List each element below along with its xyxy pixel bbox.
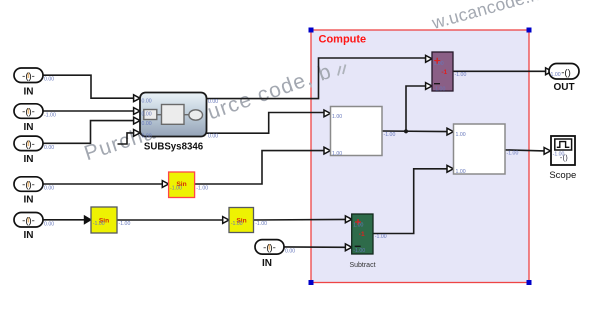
wire IN5 to Sin2 xyxy=(43,219,85,221)
svg-text:1.00: 1.00 xyxy=(353,222,363,228)
wire IN6 to Subtract minus input xyxy=(284,246,346,248)
svg-text:Compute: Compute xyxy=(319,34,367,46)
svg-text:-1.00: -1.00 xyxy=(353,248,365,254)
inport IN5 oval xyxy=(14,213,43,228)
gain/filter block Block1 (white) xyxy=(331,107,383,156)
svg-text:-1.00: -1.00 xyxy=(231,221,243,227)
subtract block (dark green sum) xyxy=(352,214,373,254)
selection handle top-right xyxy=(527,28,532,33)
svg-text:0.00: 0.00 xyxy=(44,145,54,151)
wire Block1 out to Block2 port1 xyxy=(382,130,447,133)
svg-text:-1.00: -1.00 xyxy=(170,185,182,191)
arrow into Subtract minus xyxy=(345,244,351,251)
inport IN2 oval xyxy=(14,104,43,119)
junction node xyxy=(404,129,408,133)
arrow into Sin3 xyxy=(223,217,229,224)
svg-text:-()-: -()- xyxy=(263,242,276,253)
arrow into Subtract plus xyxy=(345,216,351,223)
outport OUT oval xyxy=(549,64,579,80)
svg-text:IN: IN xyxy=(24,154,34,165)
svg-text:IN: IN xyxy=(24,230,34,241)
svg-text:0.00: 0.00 xyxy=(44,77,54,83)
wire Sin1 to Block1 port2 xyxy=(195,151,325,184)
arrow into Scope xyxy=(544,148,550,155)
wire branch junction to Adder minus input xyxy=(406,86,426,131)
arrow into SUBSys port4 xyxy=(134,130,140,137)
wire IN4 to Sin1 xyxy=(43,183,162,185)
sine block Sin2 xyxy=(91,207,117,233)
wire IN2 to SUBSys port2 xyxy=(43,110,134,112)
gain/filter block Block2 (white) xyxy=(454,124,506,174)
svg-text:-1.00: -1.00 xyxy=(196,185,208,191)
svg-text:IN: IN xyxy=(262,258,272,269)
svg-text:OUT: OUT xyxy=(553,82,574,93)
inport IN6 oval xyxy=(255,240,284,255)
svg-text:0.00: 0.00 xyxy=(142,111,152,117)
svg-text:-1.00: -1.00 xyxy=(553,151,565,157)
inport IN4 oval xyxy=(14,177,43,192)
svg-text:1.00: 1.00 xyxy=(456,132,466,138)
arrow into SUBSys port1 xyxy=(134,95,140,102)
svg-text:1.00: 1.00 xyxy=(332,151,342,157)
svg-text:-1.00: -1.00 xyxy=(119,221,131,227)
svg-text:0.00: 0.00 xyxy=(142,121,152,127)
arrow into SUBSys port2 xyxy=(134,108,140,115)
port value labels (blue) xyxy=(44,61,565,254)
svg-text:-1.00: -1.00 xyxy=(434,87,446,93)
sine block Sin3 xyxy=(229,208,254,233)
svg-text:-1.00: -1.00 xyxy=(44,113,56,119)
arrow into Adder plus xyxy=(426,55,432,62)
wire IN1 to SUBSys port1 xyxy=(43,75,134,98)
inport IN3 oval xyxy=(14,136,43,151)
wire dangling segment to SUBSys port4 xyxy=(118,133,134,144)
svg-text:Scope: Scope xyxy=(549,170,576,181)
arrow into Block1 port1 xyxy=(324,110,330,117)
wire Sin2 to Sin3 xyxy=(117,219,223,221)
svg-text:0.00: 0.00 xyxy=(142,133,152,139)
arrow into Sin1 xyxy=(162,181,168,188)
svg-text:Subtract: Subtract xyxy=(349,262,375,269)
svg-text:-1.00: -1.00 xyxy=(93,221,105,227)
svg-text:-()-: -()- xyxy=(22,71,35,82)
selection handle bottom-right xyxy=(527,280,532,285)
svg-text:-()-: -()- xyxy=(22,139,35,150)
svg-text:0.00: 0.00 xyxy=(208,134,218,140)
svg-text:-1.00: -1.00 xyxy=(507,151,519,157)
arrow into Sin2 (solid) xyxy=(84,216,91,224)
svg-text:-1.00: -1.00 xyxy=(384,132,396,138)
inport IN1 oval xyxy=(14,68,43,83)
svg-text:-1: -1 xyxy=(441,69,447,76)
svg-text:IN: IN xyxy=(24,122,34,133)
wire Subtract out to Block2 port2 xyxy=(373,169,447,234)
svg-text:-()-: -()- xyxy=(22,180,35,191)
svg-text:-1.00: -1.00 xyxy=(375,234,387,240)
svg-text:-1: -1 xyxy=(359,231,365,238)
arrow into Adder minus xyxy=(426,83,432,90)
selection handle top-left xyxy=(309,28,314,33)
svg-text:1.00: 1.00 xyxy=(332,114,342,120)
svg-text:1.00: 1.00 xyxy=(434,61,444,67)
svg-text:0.00: 0.00 xyxy=(44,221,54,227)
svg-text:SUBSys8346: SUBSys8346 xyxy=(144,142,204,153)
scope block xyxy=(551,136,575,165)
svg-text:-(): -() xyxy=(561,67,571,78)
arrow into Block2 port1 xyxy=(447,128,453,135)
svg-text:0.00: 0.00 xyxy=(44,186,54,192)
svg-text:1.00: 1.00 xyxy=(456,169,466,175)
svg-text:-()-: -()- xyxy=(22,107,35,118)
svg-text:0.00: 0.00 xyxy=(285,248,295,254)
svg-text:0.00: 0.00 xyxy=(142,99,152,105)
wire SUBSys out1 to Adder plus input xyxy=(207,58,426,99)
svg-text:1.00: 1.00 xyxy=(551,72,561,78)
wire Adder out to OUT port xyxy=(453,70,546,72)
arrow into Block2 port2 xyxy=(447,165,453,172)
wire IN3 to SUBSys port3 xyxy=(43,121,134,144)
watermark partial letter after b xyxy=(338,65,346,76)
svg-text:-1.00: -1.00 xyxy=(455,72,467,78)
svg-text:0.00: 0.00 xyxy=(208,99,218,105)
subsystem region Compute (lavender area, red border) xyxy=(311,30,529,283)
svg-text:IN: IN xyxy=(24,194,34,205)
svg-text:-1.00: -1.00 xyxy=(255,221,267,227)
adder block U1 (purple sum) xyxy=(432,52,453,91)
svg-text:-()-: -()- xyxy=(22,215,35,226)
arrow into SUBSys port3 xyxy=(134,117,140,124)
arrow into Block1 port2 xyxy=(324,147,330,154)
arrow into OUT port xyxy=(546,68,552,75)
wire Sin3 to Subtract plus input xyxy=(254,218,346,221)
wire SUBSys out2 to Block1 port1 xyxy=(207,113,325,134)
selection handle bottom-left xyxy=(309,280,314,285)
wire Block2 out to Scope xyxy=(505,150,544,151)
sine block Sin1 xyxy=(169,172,195,198)
svg-text:IN: IN xyxy=(24,87,34,98)
subsystem block SUBSys8346 xyxy=(140,93,207,137)
